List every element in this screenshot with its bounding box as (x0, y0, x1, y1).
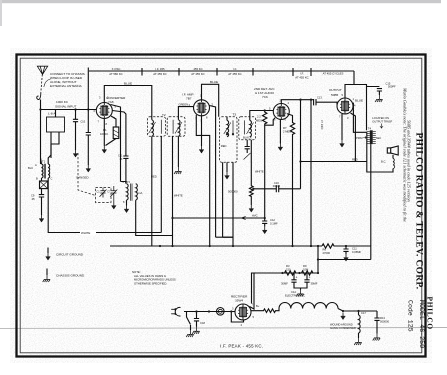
resistor 2.2 MEG vertical (263, 111, 267, 219)
svg-text:C9: C9 (31, 194, 35, 198)
IF transformer T2 dashed box primary (148, 117, 166, 137)
svg-text:6 7B 5: 6 7B 5 (123, 180, 131, 184)
svg-text:MODEL 46-250: MODEL 46-250 (417, 300, 425, 348)
svg-text:.05: .05 (31, 197, 35, 201)
antenna hook (37, 93, 41, 100)
wire 7A8 cathode down (103, 119, 105, 147)
T4 winding ticks (367, 131, 376, 143)
resistor R6 27000 (322, 244, 371, 248)
T3 core bars (233, 120, 245, 134)
svg-text:+: + (309, 276, 311, 280)
svg-text:C13: C13 (317, 95, 322, 99)
svg-text:BLUE: BLUE (210, 80, 218, 84)
svg-text:RED: RED (221, 144, 227, 148)
capacitor C12 (262, 218, 267, 227)
svg-text:ELECTROLYTIC: ELECTROLYTIC (285, 294, 305, 298)
svg-text:10000: 10000 (100, 132, 108, 136)
wire B plus bus (110, 245, 322, 247)
wire 7A8 pin4 to R1 (111, 116, 116, 127)
svg-text:CIRCUIT GROUND: CIRCUIT GROUND (56, 253, 84, 257)
svg-text:+: + (296, 276, 298, 280)
svg-text:AT 455 KC: AT 455 KC (295, 76, 308, 80)
pilot lamp (217, 308, 225, 316)
2nd det tube 7C6 (273, 104, 289, 120)
PRIM arrow (363, 137, 366, 139)
transformer T1 primary (42, 164, 44, 178)
wire audio coupling vertical (300, 100, 302, 189)
capacitor C11b (343, 246, 348, 254)
svg-text:40000: 40000 (273, 184, 281, 188)
svg-text:WHITE: WHITE (174, 194, 183, 198)
capacitor C14b electrolytic (301, 273, 310, 290)
wire 7A8 pin9 down (111, 105, 121, 182)
capacitor C9 (39, 195, 44, 215)
wire filament end (338, 309, 377, 312)
svg-text:C18: C18 (200, 321, 205, 325)
svg-text:AT 455 KC: AT 455 KC (228, 72, 241, 76)
scanner gray strip top (0, 0, 441, 3)
wire 7A8 plate blue (104, 86, 152, 120)
schematic outer border frame (17, 55, 426, 357)
capacitor C11 33 (123, 156, 128, 158)
wire rect heater loop (231, 312, 243, 323)
wire rect plate up (250, 273, 255, 309)
wire 7C6 plate coupling (281, 99, 337, 105)
svg-text:30MF: 30MF (311, 282, 318, 286)
svg-text:0.1MF: 0.1MF (270, 222, 278, 226)
svg-text:PRIM: PRIM (356, 136, 362, 140)
svg-text:C10: C10 (81, 120, 86, 123)
antenna (37, 66, 47, 74)
wire T2 primary bottom long (151, 136, 153, 246)
wire antenna bus (41, 109, 97, 111)
svg-text:EXTERNAL ANTENNA: EXTERNAL ANTENNA (50, 84, 83, 88)
svg-text:SEC: SEC (376, 136, 381, 140)
wire voice coil loop (367, 132, 393, 172)
wire rect filament right (251, 309, 279, 313)
chassis ground C14 (296, 290, 303, 297)
svg-text:GANG CONDENSER: GANG CONDENSER (330, 326, 356, 330)
rectifier tube 35W4 (235, 304, 251, 320)
svg-text:AT 580 KC: AT 580 KC (109, 72, 122, 76)
wire 7B7 screen pin2 (209, 106, 215, 238)
chassis ground C15 (375, 95, 382, 102)
svg-text:30MF: 30MF (281, 282, 288, 286)
resistor R9 (302, 271, 313, 275)
svg-text:7C6: 7C6 (262, 95, 268, 99)
svg-text:R13: R13 (380, 316, 385, 320)
voice coil bumps (393, 158, 395, 168)
dimension line (89, 70, 354, 72)
wire filter line (252, 246, 371, 304)
svg-text:150: 150 (286, 268, 291, 272)
svg-text:OTHERWISE SPECIFIED.: OTHERWISE SPECIFIED. (134, 281, 167, 285)
wire screen bus segment (216, 236, 233, 238)
capacitor C14a electrolytic (291, 273, 300, 288)
wire 50B5 plate blue (353, 103, 366, 133)
svg-text:OUTPUT: OUTPUT (329, 88, 342, 92)
svg-text:0.05MF: 0.05MF (352, 250, 361, 254)
svg-text:T4: T4 (368, 127, 372, 131)
svg-text:OUTPUT TRNSF: OUTPUT TRNSF (372, 119, 392, 123)
svg-text:1000 KC: 1000 KC (56, 100, 69, 104)
ground circuit C11b (344, 254, 349, 261)
wire 7C6 cathode (279, 120, 281, 144)
svg-text:BLUE: BLUE (355, 99, 363, 103)
svg-text:R6: R6 (323, 248, 327, 252)
wire red heater line (301, 161, 367, 163)
AC plug (171, 307, 180, 316)
fold crease line (0, 327, 447, 330)
wire 7A8 pin4b down (112, 111, 126, 157)
capacitor C16 (276, 185, 300, 192)
svg-text:SIGNAL INPUT: SIGNAL INPUT (55, 105, 76, 109)
svg-text:RED: RED (352, 158, 358, 162)
filament string resistor (279, 303, 338, 309)
svg-text:C14: C14 (291, 290, 296, 294)
svg-text:R3: R3 (286, 264, 290, 268)
svg-text:PHILCO RADIO & TELEV. CORP.: PHILCO RADIO & TELEV. CORP. (414, 133, 424, 290)
svg-text:AT 455 KC: AT 455 KC (191, 72, 204, 76)
ground circuit 7B7 cathode (199, 146, 204, 153)
wire wiper to C16 (253, 188, 276, 190)
ground circuit filament (341, 313, 346, 320)
wire T3 inner lead down (232, 162, 234, 246)
transformer T1 secondary (48, 164, 50, 178)
resistor R7 2MEG (287, 114, 295, 246)
svg-text:AT 455 CYCLES: AT 455 CYCLES (323, 72, 344, 76)
volume control 500000 (250, 140, 254, 205)
wire T3 secondary to 7C6 grid (250, 111, 273, 121)
svg-text:27000: 27000 (323, 251, 331, 255)
svg-text:35W4: 35W4 (235, 299, 243, 303)
svg-text:WHITE: WHITE (255, 170, 264, 174)
T2 primary shield bar (161, 120, 173, 134)
ground circuit volume (249, 205, 254, 212)
ground circuit C12 (262, 227, 267, 234)
resistor R13 branch (374, 311, 379, 334)
wire T2 secondary green to 7B7 (178, 107, 193, 120)
hum coil wound around gang (358, 311, 360, 315)
T3 trimmer arrows (224, 123, 254, 135)
schematic inner border frame (20, 58, 422, 353)
converter tube 7A8 (96, 103, 112, 119)
svg-text:AVC: AVC (252, 214, 258, 218)
T3 internal trimmer arrow (244, 153, 251, 160)
dimension labels (109, 67, 343, 80)
svg-text:2.2: 2.2 (257, 115, 261, 119)
svg-text:AT 455 KC: AT 455 KC (153, 72, 166, 76)
svg-text:50B5: 50B5 (331, 93, 339, 97)
wire 50B5 screen top (345, 85, 382, 131)
capacitor C18 line (194, 312, 199, 327)
wire 7C6 diode to grid chain (265, 118, 275, 126)
T3 internal cap (245, 140, 250, 153)
text labels layer (28, 67, 396, 349)
IF transformer T3 dashed box secondary (239, 117, 256, 140)
ground circuit gang (112, 202, 117, 209)
resistor R3 150 (285, 271, 296, 275)
svg-text:R7: R7 (283, 126, 287, 130)
svg-text:R9: R9 (303, 264, 307, 268)
arrow located note (380, 124, 383, 129)
IF transformer T3 dashed box primary tall (220, 117, 238, 163)
IF amp tube 7B7 (194, 100, 210, 116)
wire 7B7 cathode (201, 116, 203, 146)
svg-text:Code 125: Code 125 (407, 300, 414, 332)
wire T4 B plus down (370, 144, 372, 259)
legend chassis ground (46, 269, 48, 276)
svg-text:7B7: 7B7 (186, 97, 192, 101)
svg-text:C12: C12 (270, 218, 275, 222)
svg-text:T2: T2 (162, 113, 166, 117)
antenna note leader wire (44, 79, 51, 87)
scanner gray sliver left (0, 0, 2, 26)
svg-text:500000: 500000 (228, 189, 238, 193)
switch (187, 312, 191, 331)
svg-text:500PF: 500PF (388, 85, 396, 89)
svg-text:50B5 and 35W4 tubes used in co: 50B5 and 35W4 tubes used in code 125 ver… (407, 120, 412, 202)
T2 primary winding (152, 120, 154, 136)
ground circuit C9 (39, 215, 44, 222)
ground circuit C103 (86, 165, 91, 172)
wire bus to screen segment (223, 236, 233, 238)
svg-text:2 MEG: 2 MEG (283, 130, 291, 134)
IF transformer T2 dashed box secondary (167, 117, 185, 137)
T3 secondary winding (250, 120, 252, 136)
wire 7B7 plate blue (202, 84, 228, 120)
svg-text:T3: T3 (233, 113, 237, 117)
svg-text:B: B (36, 177, 38, 181)
svg-text:BLU: BLU (28, 166, 33, 170)
svg-text:GREEN: GREEN (179, 103, 189, 107)
svg-text:GANGED: GANGED (76, 176, 89, 180)
svg-text:RED: RED (151, 175, 157, 179)
wire T2 secondary bottom to ground (177, 136, 179, 167)
capacitor C10 (73, 110, 78, 151)
label white line (80, 230, 96, 235)
wire T2 inner white lead (172, 136, 174, 246)
wire T3 left lead down (222, 162, 224, 237)
svg-text:MEG: MEG (256, 119, 262, 123)
wire AC line (184, 311, 235, 313)
wire 50B5 cathode (341, 114, 343, 140)
svg-text:BLACK: BLACK (243, 136, 252, 140)
resistor R1 boxed (113, 127, 119, 139)
wire antenna down column (40, 100, 42, 165)
svg-text:PHILCO: PHILCO (425, 297, 434, 330)
wire white heater (48, 229, 161, 233)
svg-text:7A8: 7A8 (108, 100, 114, 104)
output tube 50B5 (337, 98, 353, 114)
T2 trimmer arrows (149, 122, 183, 134)
wire R1 to cathode ground (106, 139, 117, 146)
svg-text:I.F. PEAK - 455 KC.: I.F. PEAK - 455 KC. (220, 344, 263, 349)
wire plate load vertical (310, 100, 312, 246)
svg-text:T1: T1 (42, 160, 46, 164)
svg-text:I.F. 455: I.F. 455 (155, 67, 165, 71)
legend circuit ground (47, 248, 49, 254)
svg-text:C11: C11 (352, 247, 357, 251)
svg-text:A: A (35, 163, 37, 167)
trimmer C1 (100, 188, 107, 198)
loop antenna box L-8-A (47, 117, 65, 132)
svg-text:B.C.: B.C. (381, 160, 386, 164)
svg-text:C: C (51, 177, 53, 181)
pilot lamp box (40, 181, 48, 189)
oscillator coil T5 windings (121, 158, 127, 183)
svg-text:CHASSIS GROUND: CHASSIS GROUND (56, 274, 85, 278)
svg-text:WHITE: WHITE (81, 231, 90, 235)
trimmer C7 (110, 186, 117, 202)
wire loop to T1 (51, 132, 59, 158)
capacitor C103 (86, 75, 91, 165)
T3 primary winding (227, 120, 229, 136)
svg-text:455 KC: 455 KC (193, 67, 202, 71)
wire T1 leads (41, 144, 52, 229)
T1 core (44, 164, 45, 179)
node dot antenna bus (74, 108, 76, 110)
ground circuit 50B5 (340, 140, 345, 147)
svg-text:500000: 500000 (380, 320, 389, 324)
wire AVC line (173, 217, 265, 219)
wire 7B7 pin7 jog (196, 115, 209, 246)
wire T3 ground lead (226, 162, 228, 172)
ground circuit osc coil (124, 206, 129, 213)
wire T2 tap lead (160, 136, 162, 232)
svg-text:C7 2400: C7 2400 (320, 120, 323, 130)
speaker (387, 148, 390, 153)
ground circuit 7A8 cathode (102, 146, 107, 153)
ganged dashed link (78, 153, 96, 196)
svg-text:B+: B+ (256, 304, 260, 308)
svg-text:X OSC: X OSC (112, 67, 121, 71)
svg-text:L1A: L1A (138, 191, 143, 195)
svg-text:WOUND AROUND: WOUND AROUND (330, 323, 353, 327)
output transformer T4 core (370, 130, 373, 144)
ground circuit 7C6 cathode (278, 144, 283, 151)
svg-text:C17: C17 (361, 311, 366, 315)
ground circuit C10 (73, 150, 78, 157)
svg-text:BLUE: BLUE (124, 81, 132, 85)
svg-text:I.F.: I.F. (233, 67, 237, 71)
tube pin numbers (94, 93, 357, 327)
svg-text:10M: 10M (303, 268, 309, 272)
wire 50B5 heater lead (351, 113, 356, 162)
tuning gang dashed box (96, 188, 112, 203)
T2 secondary winding (178, 120, 180, 136)
AVC arrowhead (242, 216, 247, 219)
svg-text:L-8-A: L-8-A (48, 112, 57, 116)
